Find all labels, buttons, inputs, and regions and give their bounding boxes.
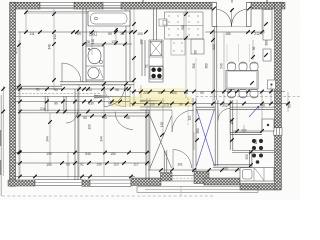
svg-text:28: 28 (86, 40, 90, 44)
svg-text:90: 90 (103, 116, 107, 120)
svg-text:90: 90 (179, 102, 183, 106)
svg-text:150: 150 (96, 163, 102, 167)
svg-text:540: 540 (220, 63, 224, 69)
svg-text:140: 140 (53, 34, 57, 40)
svg-text:90: 90 (54, 102, 58, 106)
svg-text:110: 110 (113, 163, 118, 167)
svg-text:190: 190 (46, 163, 52, 167)
svg-text:90: 90 (108, 32, 112, 36)
svg-text:06: 06 (126, 116, 130, 120)
svg-text:36: 36 (115, 88, 119, 92)
svg-text:500: 500 (212, 44, 216, 50)
svg-text:84: 84 (91, 32, 95, 36)
svg-text:221: 221 (143, 91, 149, 95)
svg-text:130: 130 (88, 102, 94, 106)
svg-text:190: 190 (140, 39, 144, 45)
svg-text:115: 115 (254, 139, 258, 144)
svg-text:344: 344 (100, 136, 104, 142)
svg-text:69: 69 (77, 32, 81, 36)
svg-text:90: 90 (54, 88, 58, 92)
svg-text:90: 90 (83, 116, 87, 120)
svg-text:100: 100 (149, 102, 155, 106)
svg-text:81: 81 (36, 88, 40, 92)
svg-text:346: 346 (48, 44, 52, 50)
svg-text:51: 51 (145, 64, 149, 68)
svg-text:36: 36 (252, 47, 256, 51)
svg-text:90: 90 (224, 167, 228, 171)
svg-text:300: 300 (245, 154, 249, 160)
svg-text:150: 150 (110, 152, 116, 156)
svg-text:14: 14 (88, 88, 92, 92)
svg-text:112: 112 (188, 115, 192, 120)
svg-text:117: 117 (133, 163, 138, 167)
svg-text:360: 360 (196, 128, 200, 134)
svg-text:06: 06 (184, 91, 188, 95)
svg-text:90: 90 (158, 91, 162, 95)
svg-text:91: 91 (80, 163, 84, 167)
svg-text:69: 69 (66, 163, 70, 167)
svg-text:130: 130 (91, 39, 95, 45)
svg-text:222: 222 (241, 129, 247, 133)
svg-text:06: 06 (194, 50, 198, 54)
svg-text:344: 344 (46, 136, 50, 142)
svg-text:383: 383 (265, 40, 269, 46)
svg-text:475: 475 (15, 48, 19, 54)
svg-text:360: 360 (205, 63, 209, 69)
svg-text:90: 90 (200, 91, 204, 95)
svg-text:83: 83 (288, 104, 292, 108)
svg-text:100: 100 (171, 91, 177, 95)
svg-text:180: 180 (225, 32, 231, 36)
svg-text:190: 190 (160, 122, 164, 128)
svg-text:175: 175 (163, 102, 169, 106)
svg-text:102: 102 (230, 119, 234, 125)
svg-text:216: 216 (40, 107, 46, 111)
svg-text:101: 101 (177, 163, 183, 167)
svg-text:40: 40 (261, 103, 265, 107)
svg-text:540: 540 (85, 152, 91, 156)
svg-text:390: 390 (181, 25, 185, 31)
svg-text:100: 100 (137, 32, 143, 36)
svg-text:36: 36 (120, 32, 124, 36)
svg-text:212: 212 (254, 32, 260, 36)
svg-text:212: 212 (222, 104, 228, 108)
svg-text:111: 111 (29, 32, 34, 36)
svg-text:190: 190 (46, 152, 52, 156)
svg-text:90: 90 (108, 102, 112, 106)
svg-text:306: 306 (192, 63, 196, 69)
svg-text:190: 190 (88, 124, 92, 130)
